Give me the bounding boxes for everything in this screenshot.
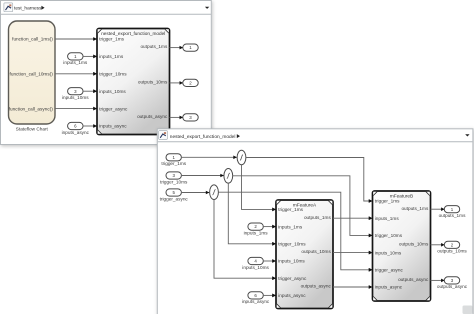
wire outputs_async bbox=[170, 116, 184, 120]
wire mFeatureA outputs_async to mFeatureB inputs_async bbox=[333, 285, 372, 289]
svg-text:trigger_1ms: trigger_1ms bbox=[375, 199, 400, 204]
wire mFeatureA outputs_10ms to mFeatureB inputs_10ms bbox=[333, 251, 372, 255]
svg-text:trigger_10ms: trigger_10ms bbox=[375, 233, 403, 238]
wire split B down to mFeatureA trigger_10ms bbox=[228, 183, 275, 246]
inport 3 trigger_10ms bbox=[160, 172, 188, 184]
inport 4 inputs_10ms bbox=[242, 257, 269, 269]
svg-text:inputs_10ms: inputs_10ms bbox=[62, 95, 89, 100]
inport 6 inputs_async bbox=[242, 292, 270, 304]
inport 1 trigger_1ms bbox=[161, 154, 186, 166]
svg-text:outputs_async: outputs_async bbox=[437, 284, 468, 289]
svg-text:inputs_1ms: inputs_1ms bbox=[63, 60, 88, 65]
svg-text:outputs_10ms: outputs_10ms bbox=[301, 249, 331, 254]
model block mFeatureA bbox=[272, 200, 333, 309]
svg-text:inputs_async: inputs_async bbox=[62, 130, 90, 135]
svg-text:trigger_async: trigger_async bbox=[278, 276, 307, 281]
svg-text:inputs_async: inputs_async bbox=[278, 293, 306, 298]
svg-text:inputs_1ms: inputs_1ms bbox=[244, 230, 269, 235]
resize grip window 2 bbox=[463, 306, 473, 314]
svg-text:inputs_async: inputs_async bbox=[375, 285, 403, 290]
model block nested_export_function_model (window 1) bbox=[93, 29, 169, 135]
wire outputs_1ms bbox=[170, 46, 184, 50]
wire inputs_1ms bbox=[83, 55, 97, 59]
dropdown arrow window 1 bbox=[205, 7, 209, 9]
svg-text:inputs_10ms: inputs_10ms bbox=[278, 259, 305, 264]
function-call split C (async) bbox=[210, 185, 219, 200]
outport 1 (window 1) bbox=[183, 44, 198, 51]
svg-text:inputs_10ms: inputs_10ms bbox=[375, 250, 402, 255]
window 2 icon bbox=[159, 131, 168, 140]
svg-text:outputs_async: outputs_async bbox=[137, 114, 168, 119]
svg-text:inputs_1ms: inputs_1ms bbox=[99, 54, 124, 59]
inport 1 inputs_1ms (window 1) bbox=[63, 53, 88, 65]
window 2 title bar separator bbox=[158, 141, 473, 143]
outport 3 outputs_async bbox=[437, 277, 468, 289]
svg-text:nested_export_function_model: nested_export_function_model bbox=[101, 31, 165, 36]
svg-text:trigger_10ms: trigger_10ms bbox=[160, 179, 188, 184]
window test_harness icon bbox=[4, 3, 13, 12]
wire split B to mFeatureB trigger_10ms bbox=[233, 176, 373, 237]
svg-text:inputs_10ms: inputs_10ms bbox=[242, 265, 269, 270]
wire mFeatureB outputs_10ms bbox=[431, 243, 445, 247]
wire function_call_1ms bbox=[55, 37, 97, 41]
wire trigger_1ms to split bbox=[181, 156, 237, 160]
wire split A down to mFeatureA trigger_1ms bbox=[242, 165, 276, 211]
wire function_call_async bbox=[55, 107, 97, 111]
svg-text:Stateflow Chart: Stateflow Chart bbox=[16, 126, 49, 131]
outport 2 outputs_10ms bbox=[437, 241, 467, 253]
svg-text:outputs_10ms: outputs_10ms bbox=[138, 80, 168, 85]
wire function_call_10ms bbox=[55, 72, 97, 76]
wire mFeatureB outputs_1ms bbox=[431, 207, 445, 211]
svg-text:inputs_async: inputs_async bbox=[99, 124, 127, 129]
svg-text:outputs_10ms: outputs_10ms bbox=[399, 241, 429, 246]
svg-text:trigger_1ms: trigger_1ms bbox=[161, 161, 186, 166]
svg-text:trigger_10ms: trigger_10ms bbox=[278, 242, 306, 247]
function-call split A (1ms) bbox=[237, 150, 246, 165]
wire trigger_async to split bbox=[181, 191, 209, 195]
wire inputs_async to mFeatureA bbox=[263, 294, 276, 298]
wire split A to mFeatureB trigger_1ms bbox=[246, 158, 372, 203]
svg-text:function_call_1ms(): function_call_1ms() bbox=[12, 37, 53, 42]
svg-text:trigger_async: trigger_async bbox=[160, 196, 189, 201]
dropdown arrow window 2 bbox=[465, 134, 469, 136]
wire outputs_10ms bbox=[170, 81, 184, 85]
svg-text:trigger_1ms: trigger_1ms bbox=[278, 207, 303, 212]
wire split C to mFeatureB trigger_async bbox=[218, 192, 372, 271]
wire mFeatureA outputs_1ms to mFeatureB inputs_1ms bbox=[333, 216, 372, 220]
function-call split B (10ms) bbox=[224, 169, 233, 184]
svg-text:trigger_10ms: trigger_10ms bbox=[99, 72, 127, 77]
svg-text:nested_export_function_model: nested_export_function_model bbox=[170, 134, 236, 140]
Stateflow Chart block bbox=[9, 21, 56, 131]
svg-text:outputs_1ms: outputs_1ms bbox=[439, 213, 466, 218]
outport 3 (window 1) bbox=[183, 114, 198, 121]
svg-text:inputs_async: inputs_async bbox=[242, 299, 270, 304]
outport 1 outputs_1ms bbox=[439, 206, 466, 218]
wire inputs_1ms to mFeatureA bbox=[263, 225, 276, 229]
outport 2 (window 1) bbox=[183, 79, 198, 86]
svg-text:outputs_async: outputs_async bbox=[398, 277, 429, 282]
svg-text:outputs_1ms: outputs_1ms bbox=[401, 206, 428, 211]
svg-text:trigger_async: trigger_async bbox=[375, 268, 404, 273]
window test_harness frame bbox=[1, 1, 212, 145]
wire inputs_10ms to mFeatureA bbox=[263, 259, 276, 263]
svg-text:outputs_10ms: outputs_10ms bbox=[437, 249, 467, 254]
svg-text:test_harness: test_harness bbox=[14, 6, 42, 12]
wire inputs_10ms bbox=[83, 89, 97, 93]
svg-text:inputs_10ms: inputs_10ms bbox=[99, 89, 126, 94]
svg-text:function_call_10ms(): function_call_10ms() bbox=[10, 72, 54, 77]
svg-text:outputs_async: outputs_async bbox=[301, 284, 332, 289]
svg-text:outputs_1ms: outputs_1ms bbox=[304, 215, 331, 220]
wire mFeatureB outputs_async bbox=[431, 279, 445, 283]
svg-text:inputs_1ms: inputs_1ms bbox=[375, 216, 400, 221]
inport 6 inputs_async (window 1) bbox=[62, 122, 90, 134]
wire split C down to mFeatureA trigger_async bbox=[214, 200, 276, 281]
breadcrumb arrow window 2 bbox=[237, 134, 240, 138]
inport 5 trigger_async bbox=[160, 189, 189, 201]
inport 3 inputs_10ms (window 1) bbox=[62, 88, 89, 100]
wire trigger_10ms to split bbox=[181, 174, 224, 178]
svg-text:trigger_async: trigger_async bbox=[99, 106, 128, 111]
breadcrumb arrow bbox=[41, 6, 44, 10]
inport 2 inputs_1ms bbox=[244, 223, 269, 235]
svg-text:inputs_1ms: inputs_1ms bbox=[278, 224, 303, 229]
wire inputs_async bbox=[83, 124, 97, 128]
svg-text:trigger_1ms: trigger_1ms bbox=[99, 37, 124, 42]
window nested_export_function_model frame bbox=[157, 129, 473, 314]
window test_harness title bar separator bbox=[1, 13, 211, 15]
svg-text:outputs_1ms: outputs_1ms bbox=[140, 44, 167, 49]
model block mFeatureB bbox=[369, 191, 431, 301]
svg-text:function_call_async(): function_call_async() bbox=[9, 106, 53, 111]
